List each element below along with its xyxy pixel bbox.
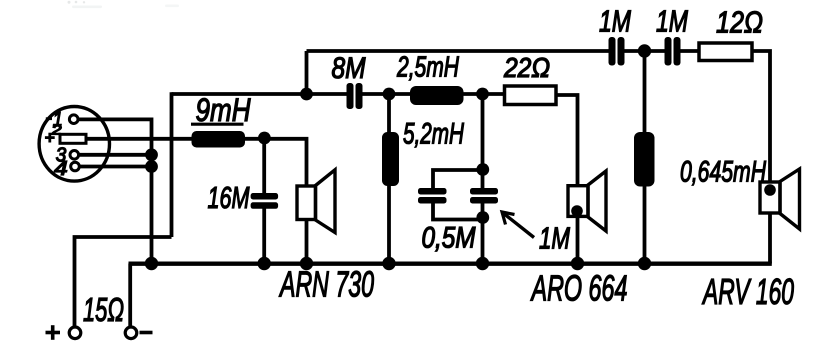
wire minus terminal riser — [128, 264, 132, 327]
wire input riser — [170, 92, 174, 237]
wire pin4 stub — [80, 165, 152, 169]
wire cap-pair bottom bus — [433, 204, 483, 220]
wire ARV160 to rail corner — [768, 213, 772, 264]
label -1 — [46, 117, 52, 120]
wire top branch vertical — [305, 51, 309, 94]
wire 22ohm to ARO664 — [556, 95, 578, 186]
svg-text:16M: 16M — [208, 180, 250, 215]
node 5.2mH branch — [383, 88, 396, 101]
svg-text:9mH: 9mH — [196, 92, 252, 128]
terminal minus circle — [125, 327, 137, 339]
capacitor 1M (second) plates — [665, 37, 672, 66]
svg-text:0,645mH: 0,645mH — [680, 156, 766, 189]
wire ARO664 to rail — [576, 216, 580, 263]
node rail junctions — [145, 257, 158, 270]
node cap branch — [476, 88, 489, 101]
wire cap-pair vertical lower — [481, 204, 485, 264]
svg-text:2: 2 — [50, 122, 62, 138]
wire rail2 segment a — [172, 92, 347, 96]
wire rail2 segment c — [464, 92, 505, 96]
wire cap-pair top bus — [433, 170, 483, 189]
wire top rail segment b — [625, 49, 665, 53]
wire 12ohm to ARV160 — [752, 51, 770, 182]
svg-text:12Ω: 12Ω — [716, 5, 763, 40]
svg-text:1M: 1M — [539, 221, 570, 256]
wire cap-pair vertical upper — [481, 94, 485, 189]
wire 5.2mH lower — [387, 186, 391, 264]
wire bottom rail — [129, 262, 772, 266]
terminal plus circle — [69, 327, 81, 339]
resistor 22 ohm body — [505, 86, 557, 105]
wire 16M branch upper — [262, 138, 266, 194]
capacitor 1M (parallel) plates — [470, 188, 498, 195]
inductor 9mH body — [192, 131, 246, 148]
wire 9mH to speaker corner — [245, 139, 307, 186]
arrow pointer to 1M — [503, 213, 535, 238]
speaker ARV 160 symbol — [760, 169, 800, 229]
node cap-pair bottom — [476, 211, 489, 224]
minus sign — [140, 331, 153, 335]
svg-text:5,2mH: 5,2mH — [403, 118, 464, 151]
svg-text:0,5M: 0,5M — [422, 222, 476, 255]
svg-text:1M: 1M — [599, 4, 631, 39]
node 9mH output — [258, 132, 271, 145]
capacitor 8M plates — [347, 83, 354, 109]
svg-text:ARO 664: ARO 664 — [530, 268, 627, 309]
wire 16M branch lower — [262, 209, 266, 264]
svg-text:2,5mH: 2,5mH — [396, 52, 459, 84]
node ARO664 terminal — [571, 205, 583, 217]
speaker ARO 664 symbol — [568, 171, 606, 231]
inductor 5.2mH body — [382, 132, 399, 186]
connector J1 DIN socket circle — [39, 107, 109, 182]
svg-text:15Ω: 15Ω — [83, 291, 124, 328]
svg-text:4: 4 — [54, 158, 67, 180]
wire top rail segment a — [307, 49, 610, 53]
capacitor 16M plates — [251, 193, 279, 200]
capacitor 0.5M plates — [418, 188, 447, 195]
wire pin3 stub — [79, 153, 152, 157]
node cap-pair top — [476, 163, 489, 176]
resistor 12 ohm body — [699, 43, 752, 61]
pin 3 — [70, 151, 79, 160]
node pin4 junction — [145, 160, 158, 173]
pin 2 key slot — [60, 134, 86, 143]
label 9mH underline — [191, 123, 244, 126]
svg-text:ARN 730: ARN 730 — [279, 264, 374, 305]
inductor 0.645mH body — [634, 132, 655, 187]
plus sign — [46, 331, 61, 335]
wire 5.2mH upper — [387, 94, 391, 133]
inductor 2.5mH body — [410, 86, 464, 105]
wire top rail segment c — [681, 49, 700, 53]
label + of pin2 — [45, 136, 55, 139]
node ARV160 terminal — [764, 184, 776, 196]
svg-text:8M: 8M — [332, 52, 366, 85]
node pin3 junction — [145, 148, 158, 161]
node input rail junction — [300, 88, 313, 101]
wire ARN730 to bottom rail — [305, 220, 309, 264]
svg-text:22Ω: 22Ω — [503, 52, 550, 83]
pin 1 — [69, 115, 78, 124]
wire plus terminal path — [75, 237, 172, 327]
pin 4 — [71, 162, 80, 171]
wire pin1 to vertical — [78, 119, 151, 263]
faint scan smudges (decorative) — [68, 1, 180, 8]
capacitor 1M (first) plates — [609, 37, 616, 66]
speaker ARN 730 symbol — [297, 170, 335, 233]
node 1M junction — [638, 44, 651, 57]
wire pin2 to 9mH inductor — [86, 137, 192, 141]
wire 0.645mH lower — [643, 187, 647, 264]
svg-text:ARV 160: ARV 160 — [702, 271, 794, 312]
wire 0.645mH upper — [643, 51, 647, 133]
svg-text:1M: 1M — [656, 4, 688, 39]
wire rail2 segment b — [363, 92, 411, 96]
